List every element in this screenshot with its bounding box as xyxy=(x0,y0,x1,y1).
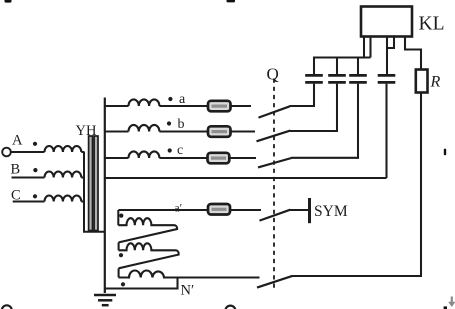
svg-text:R: R xyxy=(430,74,441,91)
svg-text:N′: N′ xyxy=(181,283,195,299)
svg-text:KL: KL xyxy=(419,14,445,35)
svg-text:Q: Q xyxy=(267,65,279,84)
svg-text:a: a xyxy=(179,92,186,107)
svg-text:b: b xyxy=(178,117,185,132)
svg-text:YH: YH xyxy=(76,123,97,139)
svg-text:B: B xyxy=(11,161,21,177)
svg-text:SYM: SYM xyxy=(314,203,348,220)
svg-text:A: A xyxy=(12,132,23,148)
svg-text:C: C xyxy=(11,187,21,203)
svg-text:a′: a′ xyxy=(175,202,183,214)
svg-text:c: c xyxy=(177,143,183,158)
